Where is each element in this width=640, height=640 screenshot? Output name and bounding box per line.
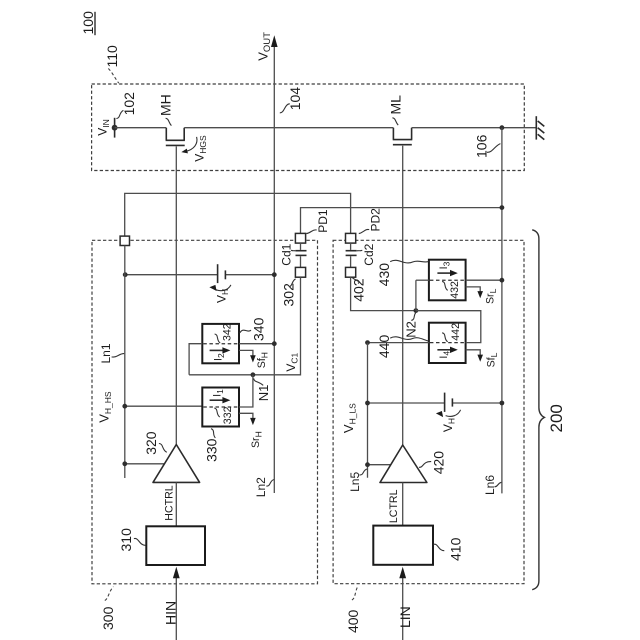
label 300 with dashed leader [100, 587, 116, 630]
label Ln6 with squiggle [483, 475, 501, 495]
svg-text:Cd1: Cd1 [279, 243, 293, 265]
label 400 with dashed leader [345, 586, 361, 633]
svg-text:330: 330 [203, 438, 219, 462]
node VIN terminal [96, 118, 118, 138]
battery VH (high side) [218, 264, 226, 283]
PD1 square [295, 233, 305, 243]
label Cd1 with tick [279, 243, 295, 265]
svg-text:302: 302 [281, 283, 297, 307]
label 340 with squiggle [240, 317, 267, 341]
block 440 left wire to Ln5 [368, 342, 429, 344]
SfL output arrow [466, 350, 499, 368]
svg-text:342: 342 [222, 323, 234, 341]
label ML with leader [387, 95, 403, 125]
svg-text:Ln6: Ln6 [483, 475, 497, 495]
block 410 [373, 526, 433, 565]
terminal square on box 300 [120, 236, 129, 245]
svg-text:106: 106 [474, 134, 490, 158]
MH gate line [175, 146, 177, 444]
svg-text:N1: N1 [256, 385, 271, 402]
ground symbol [536, 116, 544, 139]
label 410 with squiggle [433, 537, 463, 561]
LCTRL line [402, 483, 404, 526]
dashed box 300 (high-side driver) [92, 240, 318, 584]
transistor MH [166, 128, 185, 146]
dashed box 400 (low-side driver) [333, 240, 524, 583]
svg-text:Cd2: Cd2 [362, 243, 376, 265]
wire 402 square down to N2 [351, 277, 416, 310]
svg-text:200: 200 [547, 404, 566, 432]
svg-text:N2: N2 [404, 321, 419, 338]
svg-text:410: 410 [448, 537, 464, 561]
label 440 with long squiggle [376, 335, 428, 359]
VOUT arrow [255, 32, 277, 493]
capacitor Cd2 [346, 243, 357, 267]
svg-text:420: 420 [431, 451, 447, 475]
node N1 [251, 372, 256, 377]
svg-text:110: 110 [104, 45, 120, 68]
SfH output arrow [239, 350, 270, 368]
amp 320 input wire from Ln1 [125, 463, 165, 465]
svg-text:442: 442 [450, 323, 462, 341]
brace 200 [532, 230, 566, 590]
block 430 (I3 current source) [429, 260, 466, 301]
svg-text:PD2: PD2 [368, 208, 382, 232]
SrL output arrow [466, 287, 498, 304]
lower square 302 [295, 267, 305, 277]
label 402 with squiggle [350, 278, 366, 302]
lower square 402 [346, 267, 356, 277]
label 430 with long squiggle [376, 260, 428, 286]
node 106 vertical line (Ln6) [501, 128, 503, 494]
block 330 (I1 current source) [202, 388, 239, 427]
svg-text:MH: MH [157, 94, 173, 116]
label 110 with dashed leader [104, 45, 120, 83]
svg-text:104: 104 [287, 87, 303, 111]
label 330 with squiggle [203, 429, 219, 462]
block 330 right wire up to N1 [239, 375, 253, 407]
amplifier 420 [380, 445, 427, 483]
svg-text:LCTRL: LCTRL [388, 489, 400, 523]
VH curved arrow + label (low side) [436, 410, 461, 432]
label N2 with squiggle [404, 313, 419, 338]
svg-text:102: 102 [121, 92, 137, 116]
wire 302 square down to N1 [189, 277, 300, 375]
amp 420 input wire from Ln5 [368, 464, 392, 466]
label 310 with squiggle [118, 528, 146, 552]
capacitor Cd1 [296, 243, 307, 267]
label Cd2 with tick [357, 243, 376, 265]
svg-text:HIN: HIN [163, 601, 179, 625]
label 104 with squiggle [280, 87, 303, 113]
HCTRL line [175, 482, 177, 526]
block 440 (I4 current source) [429, 323, 466, 363]
svg-text:440: 440 [376, 335, 392, 359]
node 106 dot [500, 125, 505, 130]
svg-text:PD1: PD1 [316, 209, 330, 233]
HIN input arrow [163, 567, 180, 640]
svg-text:ML: ML [387, 95, 403, 115]
label Ln1 with squiggle [99, 343, 124, 363]
rail A: terminal square to PD2 [125, 193, 351, 236]
svg-text:100: 100 [80, 11, 96, 35]
label 420 with squiggle [419, 451, 447, 475]
svg-text:LIN: LIN [397, 606, 413, 628]
amplifier 320 [153, 445, 200, 483]
block 340 right wire to VC1 line [239, 343, 274, 345]
SrH output arrow [239, 413, 263, 448]
battery VH (low side) [445, 393, 453, 412]
figure number 100 [80, 11, 96, 35]
svg-text:Ln1: Ln1 [99, 343, 113, 363]
label PD1 with squiggle [306, 209, 330, 233]
block 430 left wire [416, 279, 429, 281]
label MH with leader [157, 94, 173, 125]
V_H rail (high side): Ln1 to VC1 line with battery [125, 274, 274, 276]
transistor ML [393, 128, 413, 145]
label 320 with squiggle [143, 431, 167, 455]
V_H_HS rail to block 330 [125, 405, 203, 407]
dashed box 110 (power stage) [92, 84, 525, 171]
svg-text:300: 300 [100, 606, 116, 630]
svg-text:320: 320 [143, 431, 159, 455]
wire ML to ground [412, 127, 537, 129]
label Ln2 with squiggle [254, 477, 274, 497]
block 440 right wire up and over to N2 [416, 311, 481, 343]
svg-text:432: 432 [449, 281, 461, 299]
svg-text:332: 332 [222, 406, 234, 424]
V_H_LS rail with battery [365, 401, 504, 406]
VHGS curved arrow [181, 135, 208, 162]
block 430 right wire to Ln6 line [466, 279, 502, 281]
wire VIN to MH [115, 127, 167, 129]
VH curved arrow + label (high side) [209, 285, 231, 303]
svg-text:400: 400 [345, 609, 361, 633]
label 302 with squiggle [281, 279, 297, 307]
block 340 left wire down to N1 [189, 344, 202, 375]
label 102 with squiggle [116, 92, 137, 119]
block 310 [146, 526, 205, 565]
Ln1 line [124, 246, 126, 479]
Ln5 line [367, 343, 369, 478]
label 106 with squiggle [474, 134, 501, 158]
svg-text:430: 430 [376, 263, 392, 287]
LIN input arrow [397, 567, 413, 640]
ML gate line [402, 146, 404, 445]
label N1 with squiggle [254, 378, 271, 401]
svg-text:310: 310 [118, 528, 134, 552]
block 340 (slew detector, I2 current source) [202, 323, 239, 363]
label PD2 with squiggle [359, 208, 383, 234]
node N2 dot and vertical to block 430 [414, 308, 419, 313]
junction dots on VH rail [123, 272, 128, 277]
svg-text:340: 340 [251, 317, 267, 341]
PD2 square [346, 233, 356, 243]
label Ln5 with squiggle [348, 469, 367, 492]
rail B: PD1 to node 106 line [301, 208, 502, 234]
svg-text:Ln2: Ln2 [254, 477, 268, 497]
svg-text:HCTRL: HCTRL [163, 485, 175, 520]
wire MH to ML (switch node) [184, 127, 393, 129]
